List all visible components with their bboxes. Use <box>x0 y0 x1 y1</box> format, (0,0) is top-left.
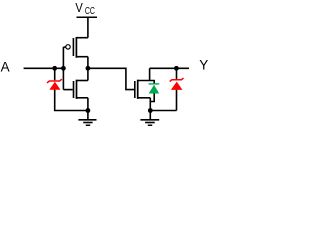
svg-text:Y: Y <box>199 58 208 73</box>
node junction dot on A line (gate tap) <box>61 66 66 71</box>
wire D1 anode to ground rail <box>55 90 88 111</box>
diode D3 output ESD clamp (red) <box>170 68 184 90</box>
wire Q3 source drop to ground rail <box>149 98 151 111</box>
node mid junction dot <box>86 66 91 71</box>
node ground junction dot left <box>86 108 91 113</box>
wire A input <box>24 67 64 69</box>
node junction dot on A line (ESD diode tap) <box>52 66 57 71</box>
wire mid node to output gate <box>88 68 134 89</box>
wire NMOS source drop <box>87 98 89 111</box>
svg-text:CC: CC <box>85 6 95 17</box>
wire PMOS drain drop to mid node <box>87 57 89 69</box>
wire common gate vertical <box>62 47 64 90</box>
node ground junction dot right <box>148 108 153 113</box>
node output junction dot <box>174 66 179 71</box>
transistor Q3 output NMOS <box>135 80 155 99</box>
wire output line to Y <box>150 67 189 69</box>
ground symbol left <box>78 111 96 126</box>
wire D2 anode jog to ground column <box>150 93 154 101</box>
wire Q3 drain rise to output line <box>149 68 151 80</box>
Vcc power rail bar <box>77 16 98 18</box>
transistor Q2 NMOS <box>63 80 88 99</box>
wire NMOS drain rise to mid node <box>87 68 89 80</box>
ground symbol right <box>140 111 159 126</box>
wire ground rail to D3 <box>150 110 176 112</box>
svg-text:A: A <box>1 59 10 74</box>
diode D2 parasitic drain diode (green) <box>149 81 160 94</box>
svg-text:V: V <box>75 0 83 15</box>
wire D3 anode to ground rail <box>176 90 178 111</box>
transistor Q1 PMOS <box>63 37 88 58</box>
diode D1 input ESD clamp (red) <box>47 68 62 89</box>
wire Vcc drop to PMOS source <box>87 17 89 37</box>
label Vcc <box>75 0 95 17</box>
